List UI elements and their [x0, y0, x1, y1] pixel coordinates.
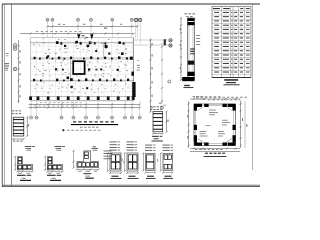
upper grid bubbles right of plan	[134, 18, 142, 43]
plan left grid bubbles	[13, 44, 16, 71]
plan right extension lines and bubbles	[134, 39, 173, 47]
plan title label	[63, 121, 119, 131]
plan top grid bubbles	[46, 18, 139, 21]
plan top grid extension lines	[48, 22, 138, 38]
shaft dimension lines	[187, 96, 247, 151]
box column detail 1	[107, 141, 124, 178]
plan extra annotation speckle	[34, 39, 126, 97]
plan top dimension lines	[20, 24, 139, 35]
schedule table caption	[224, 79, 240, 85]
column section detail	[180, 13, 205, 99]
L-shaped column detail 1	[14, 146, 35, 180]
sheet margin notes	[5, 53, 9, 70]
column elevation detail left	[12, 110, 29, 141]
schedule table grid	[212, 7, 251, 78]
plan columns fourth row	[33, 72, 134, 82]
plan wall lines	[31, 38, 134, 101]
right vertical dimension chain 1	[150, 39, 153, 113]
schedule table text	[213, 8, 250, 73]
plan core wall square	[73, 61, 84, 74]
plan bottom dimension lines	[29, 102, 141, 108]
plan grid lines horizontal	[31, 46, 134, 92]
plan right edge annotations	[137, 60, 140, 71]
misc notes row above shaft detail	[196, 97, 247, 101]
box column detail 4	[160, 145, 174, 179]
plan grid lines vertical	[36, 38, 132, 101]
plan right edge dark bar	[132, 82, 135, 97]
right side stray bubbles	[159, 80, 171, 109]
plan columns bottom row	[29, 96, 134, 100]
plan view outline	[31, 38, 134, 101]
box column detail 3	[142, 145, 158, 179]
plan bottom grid extension lines	[31, 101, 140, 116]
shaft corner haunches	[198, 107, 232, 143]
right vertical dimension chain 2	[161, 42, 163, 104]
box column detail 2	[124, 141, 139, 178]
plan columns second row	[34, 56, 133, 59]
plan bottom grid bubbles	[30, 116, 142, 119]
plan annotation speckle	[33, 38, 129, 94]
sheet border frame	[2, 4, 260, 187]
plan irregular column clusters	[47, 45, 123, 90]
shaft mid-wall columns	[194, 104, 236, 146]
shaft corner columns	[194, 104, 236, 146]
section cut arrows	[77, 34, 93, 39]
L-shaped column detail 2	[44, 146, 65, 180]
shaft detail label	[204, 153, 227, 157]
shaft plan detail walls	[194, 104, 236, 146]
shaft interior annotations	[200, 110, 231, 137]
T-shaped column detail	[73, 146, 100, 178]
plan columns top row	[56, 41, 125, 45]
column elevation detail middle	[150, 106, 169, 141]
plan left dimension line	[18, 40, 21, 103]
plan columns middle row	[55, 68, 97, 70]
note text block	[104, 151, 113, 160]
